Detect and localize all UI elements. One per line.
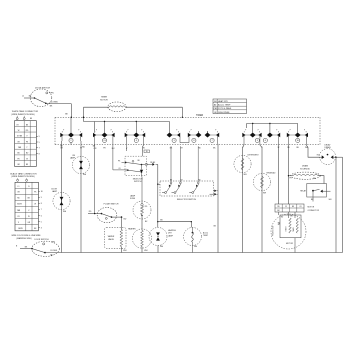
svg-text:5: 5 [39, 142, 40, 144]
svg-text:SELECTOR SWITCH: SELECTOR SWITCH [177, 199, 197, 201]
svg-text:LAMP: LAMP [130, 194, 136, 197]
svg-text:(WIRE INSERTION SIDE): (WIRE INSERTION SIDE) [11, 176, 35, 178]
svg-text:CLOSED: CLOSED [50, 102, 58, 104]
svg-text:10: 10 [41, 191, 43, 193]
svg-text:ACCU: ACCU [203, 231, 209, 234]
svg-text:F: F [191, 130, 192, 132]
svg-text:VALVE: VALVE [108, 238, 115, 241]
svg-text:6: 6 [41, 215, 42, 217]
svg-text:DOOR: DOOR [51, 188, 57, 190]
svg-text:F: F [128, 130, 129, 132]
svg-text:L1: L1 [22, 95, 24, 97]
svg-text:CONNECTOR: CONNECTOR [308, 210, 320, 212]
svg-text:LAMP: LAMP [70, 157, 76, 160]
svg-text:9: 9 [41, 197, 42, 199]
svg-text:SELECTOR: SELECTOR [133, 178, 144, 180]
svg-text:10: 10 [146, 151, 148, 153]
svg-text:F: F [215, 130, 216, 132]
svg-text:DRAIN: DRAIN [302, 164, 309, 167]
svg-text:8: 8 [41, 203, 42, 205]
svg-text:DELAY: DELAY [324, 143, 331, 146]
svg-text:F: F [63, 130, 64, 132]
svg-text:5: 5 [41, 221, 42, 223]
svg-text:DRAIN: DRAIN [325, 146, 332, 149]
svg-text:DISH RINSE: DISH RINSE [218, 112, 230, 114]
svg-text:FUSE: FUSE [130, 198, 136, 200]
svg-text:MOTOR: MOTOR [100, 99, 108, 101]
svg-text:F: F [78, 130, 79, 132]
svg-text:7: 7 [39, 148, 40, 150]
svg-text:SOLENOID: SOLENOID [300, 168, 310, 170]
svg-text:GY/BK: GY/BK [17, 136, 23, 138]
svg-text:MOTOR: MOTOR [308, 207, 315, 209]
svg-text:BU/W: BU/W [17, 204, 22, 206]
svg-text:OPN: OPN [49, 93, 54, 95]
svg-text:F: F [290, 130, 291, 132]
svg-text:(MARKING SIDE): (MARKING SIDE) [16, 237, 31, 240]
svg-text:WHITE TANK CONNECTOR: WHITE TANK CONNECTOR [12, 110, 39, 113]
svg-text:HEATING: HEATING [168, 229, 176, 232]
svg-text:PROTECTOR: PROTECTOR [273, 225, 275, 236]
svg-text:F: F [304, 130, 305, 132]
svg-text:F: F [245, 130, 246, 132]
svg-text:LAMP: LAMP [168, 235, 174, 238]
svg-text:(WIRE INSERTION SIDE): (WIRE INSERTION SIDE) [11, 114, 35, 116]
svg-text:FLOAT SWITCH: FLOAT SWITCH [104, 203, 119, 206]
svg-text:POTS & PANS: POTS & PANS [218, 107, 232, 110]
svg-text:BK/W: BK/W [18, 228, 23, 230]
svg-text:8: 8 [39, 153, 40, 155]
svg-text:TIMER: TIMER [196, 115, 203, 117]
svg-text:DOOR SWITCH: DOOR SWITCH [35, 239, 50, 241]
svg-text:F: F [276, 130, 277, 132]
svg-text:7: 7 [41, 209, 42, 211]
svg-text:WATER: WATER [108, 235, 115, 238]
svg-text:TIMER: TIMER [101, 97, 108, 99]
svg-text:NO: NO [214, 101, 217, 103]
svg-text:HEAT DRY: HEAT DRY [218, 100, 229, 103]
svg-text:ACCU. TEMP: ACCU. TEMP [218, 104, 231, 107]
svg-text:RINSE AID: RINSE AID [267, 172, 277, 175]
svg-text:W: W [143, 148, 145, 150]
svg-text:W: W [278, 147, 280, 149]
svg-text:MOTOR: MOTOR [286, 243, 294, 245]
svg-text:WIRE COLOR SIDE & LINE WIRE: WIRE COLOR SIDE & LINE WIRE [11, 235, 41, 237]
svg-text:F: F [111, 130, 112, 132]
svg-text:F: F [141, 130, 142, 132]
svg-text:CLOSED: CLOSED [50, 250, 58, 252]
svg-text:L1: L1 [18, 186, 20, 188]
svg-text:BLACK TANK CONNECTOR: BLACK TANK CONNECTOR [10, 172, 37, 175]
svg-text:RELAY: RELAY [300, 189, 307, 192]
svg-text:DETERGENT: DETERGENT [248, 155, 260, 157]
svg-text:F: F [258, 130, 259, 132]
svg-text:LAMP: LAMP [52, 190, 58, 193]
svg-text:SWITCH: SWITCH [134, 181, 142, 183]
svg-text:TEMP: TEMP [203, 235, 209, 237]
svg-text:HEATER: HEATER [128, 227, 136, 230]
svg-text:F: F [176, 130, 177, 132]
svg-text:F: F [96, 130, 97, 132]
svg-text:9: 9 [39, 136, 40, 138]
svg-text:3: 3 [41, 227, 42, 229]
